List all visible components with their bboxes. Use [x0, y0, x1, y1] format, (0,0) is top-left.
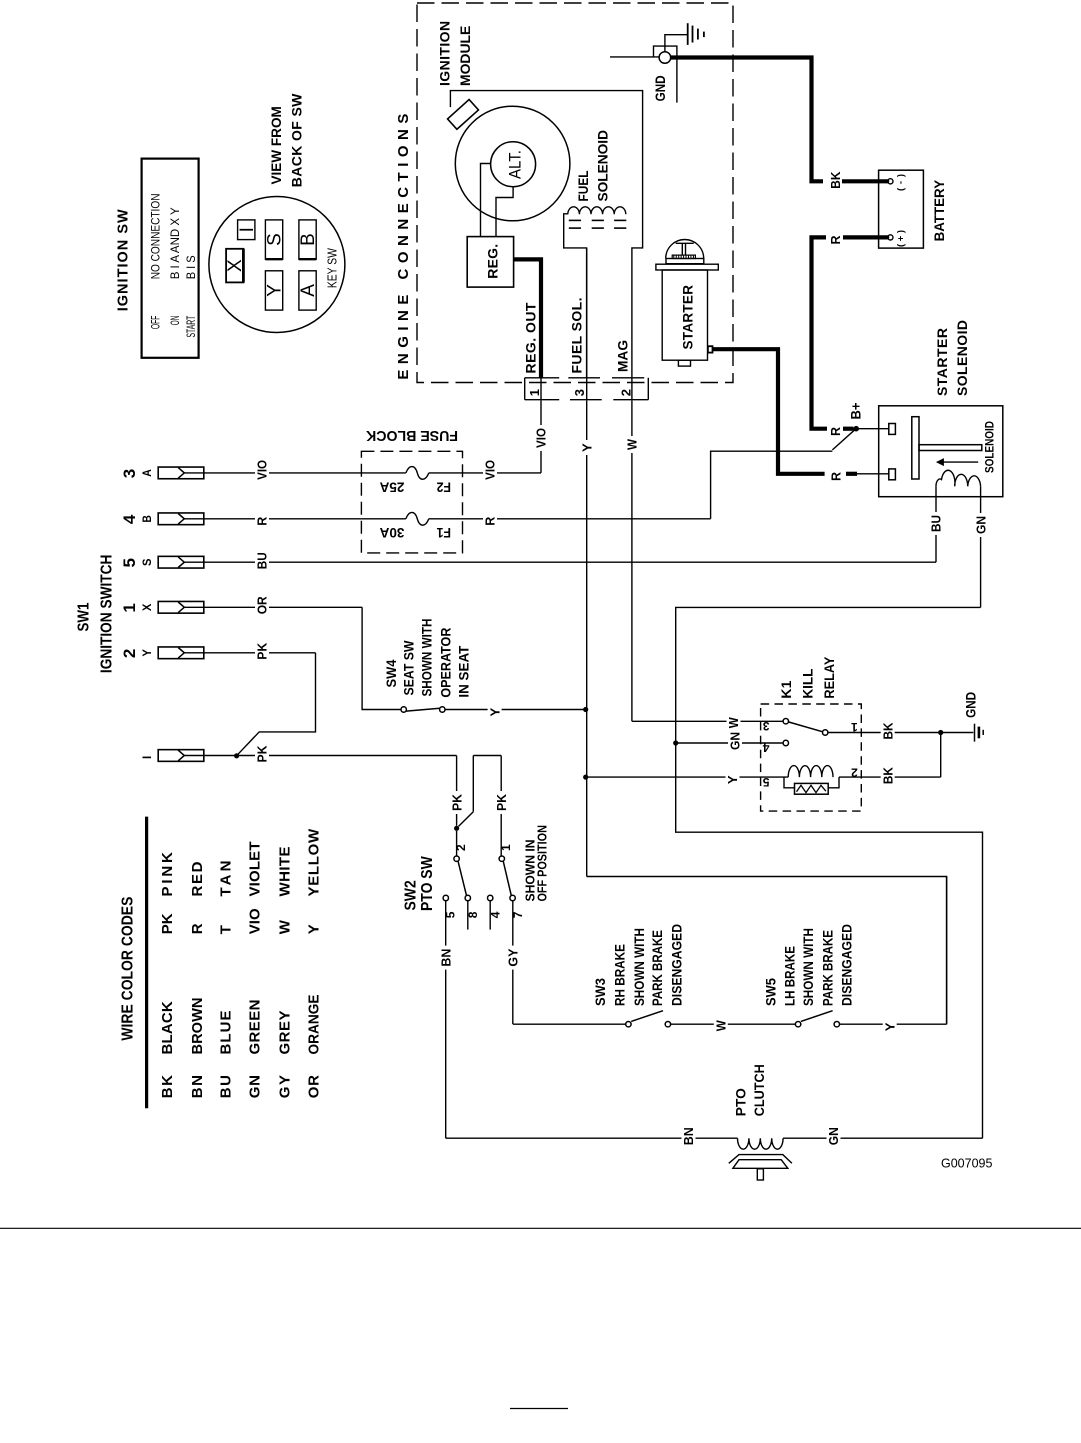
svg-text:STARTER: STARTER: [934, 328, 950, 396]
svg-text:A: A: [142, 469, 154, 477]
svg-text:(-): (-): [896, 174, 907, 191]
svg-text:IGNITION: IGNITION: [437, 21, 453, 86]
svg-text:GN: GN: [826, 1127, 841, 1145]
svg-text:PINK: PINK: [159, 852, 176, 897]
svg-text:SW3: SW3: [592, 978, 608, 1006]
svg-text:5: 5: [763, 775, 770, 789]
svg-text:W: W: [625, 438, 640, 450]
svg-text:PTO: PTO: [733, 1088, 749, 1116]
svg-text:K1: K1: [778, 680, 794, 698]
svg-text:B I A AND X Y: B I A AND X Y: [168, 207, 182, 279]
svg-text:3: 3: [120, 469, 139, 478]
svg-text:NO CONNECTION: NO CONNECTION: [149, 193, 163, 279]
svg-text:KEY SW: KEY SW: [325, 248, 340, 289]
svg-text:R: R: [483, 516, 498, 526]
svg-text:B+: B+: [849, 402, 864, 419]
svg-text:SOLENOID: SOLENOID: [954, 320, 970, 396]
svg-text:BK: BK: [880, 722, 895, 740]
svg-text:30A: 30A: [379, 525, 404, 540]
svg-text:GN: GN: [728, 732, 743, 750]
svg-text:START: START: [184, 315, 198, 337]
svg-text:BROWN: BROWN: [189, 998, 206, 1055]
svg-text:IGNITION SWITCH: IGNITION SWITCH: [99, 555, 116, 674]
svg-text:BN: BN: [438, 949, 453, 967]
svg-text:ALT.: ALT.: [506, 150, 524, 179]
svg-text:VIOLET: VIOLET: [247, 842, 264, 897]
svg-text:GY: GY: [506, 948, 521, 966]
svg-text:X: X: [142, 603, 154, 611]
svg-text:BU: BU: [929, 515, 944, 532]
svg-text:STARTER: STARTER: [681, 285, 696, 350]
svg-text:2: 2: [454, 844, 468, 851]
svg-text:S: S: [265, 233, 286, 246]
svg-text:T: T: [218, 925, 235, 934]
svg-text:SOLENOID: SOLENOID: [983, 421, 997, 473]
svg-text:CLUTCH: CLUTCH: [751, 1064, 767, 1116]
svg-text:ORANGE: ORANGE: [305, 995, 322, 1055]
svg-text:Y: Y: [725, 775, 740, 784]
svg-text:SW2: SW2: [403, 880, 420, 910]
svg-text:25A: 25A: [379, 479, 404, 494]
svg-text:PARK BRAKE: PARK BRAKE: [649, 930, 665, 1006]
svg-text:F1: F1: [436, 525, 451, 540]
svg-text:GND: GND: [963, 692, 978, 718]
svg-text:B: B: [298, 233, 319, 246]
svg-text:KILL: KILL: [800, 668, 816, 698]
svg-text:REG.: REG.: [484, 244, 500, 279]
svg-text:R: R: [828, 426, 843, 436]
svg-text:W: W: [726, 717, 741, 729]
svg-text:IN SEAT: IN SEAT: [456, 645, 472, 697]
svg-text:FUEL SOL.: FUEL SOL.: [569, 298, 585, 374]
svg-text:PK: PK: [449, 793, 464, 811]
svg-text:BN: BN: [681, 1127, 696, 1145]
svg-text:1: 1: [499, 844, 513, 851]
svg-text:VIEW FROM: VIEW FROM: [268, 106, 284, 184]
svg-text:BACK OF SW: BACK OF SW: [289, 93, 305, 187]
svg-text:PK: PK: [159, 913, 176, 934]
svg-text:ON: ON: [168, 316, 182, 326]
svg-text:SW5: SW5: [762, 978, 778, 1006]
svg-text:BK: BK: [159, 1075, 176, 1098]
svg-text:OR: OR: [305, 1075, 322, 1098]
svg-text:1: 1: [120, 603, 139, 612]
svg-text:SOLENOID: SOLENOID: [595, 130, 611, 202]
svg-text:ENGINE CONNECTIONS: ENGINE CONNECTIONS: [395, 114, 412, 380]
svg-text:LH BRAKE: LH BRAKE: [782, 946, 798, 1006]
svg-text:MODULE: MODULE: [457, 26, 473, 86]
svg-text:W: W: [276, 919, 293, 934]
svg-text:VIO: VIO: [483, 460, 498, 480]
svg-text:Y: Y: [142, 649, 154, 657]
svg-text:3: 3: [763, 719, 770, 733]
svg-text:B: B: [142, 515, 154, 523]
svg-text:I: I: [142, 756, 154, 759]
svg-text:BATTERY: BATTERY: [931, 179, 947, 241]
svg-text:FUSE BLOCK: FUSE BLOCK: [366, 427, 458, 444]
svg-text:SHOWN WITH: SHOWN WITH: [800, 928, 816, 1006]
svg-text:I: I: [237, 227, 258, 232]
svg-text:RH BRAKE: RH BRAKE: [612, 944, 628, 1006]
svg-text:SHOWN WITH: SHOWN WITH: [631, 928, 647, 1006]
svg-text:TAN: TAN: [218, 861, 235, 897]
svg-text:OR: OR: [255, 596, 270, 615]
svg-text:BU: BU: [218, 1075, 235, 1098]
svg-text:2: 2: [120, 649, 139, 658]
svg-text:BK: BK: [880, 767, 895, 785]
svg-text:(+): (+): [896, 230, 907, 247]
svg-text:SEAT SW: SEAT SW: [401, 640, 417, 696]
svg-text:4: 4: [488, 911, 502, 918]
svg-text:OFF POSITION: OFF POSITION: [535, 825, 550, 901]
svg-text:RELAY: RELAY: [821, 656, 837, 699]
svg-text:1: 1: [527, 389, 542, 396]
svg-text:Y: Y: [882, 1022, 897, 1031]
svg-text:5: 5: [120, 558, 139, 567]
svg-text:BLACK: BLACK: [159, 1001, 176, 1054]
svg-text:WHITE: WHITE: [276, 847, 293, 897]
svg-text:4: 4: [120, 514, 139, 524]
svg-text:R: R: [255, 516, 270, 526]
svg-text:FUEL: FUEL: [575, 170, 591, 201]
svg-text:OFF: OFF: [149, 316, 163, 329]
svg-text:VIO: VIO: [534, 428, 549, 448]
svg-text:WIRE COLOR CODES: WIRE COLOR CODES: [120, 897, 137, 1041]
svg-text:R: R: [828, 235, 843, 245]
svg-text:REG. OUT: REG. OUT: [523, 302, 539, 373]
svg-text:SW4: SW4: [383, 659, 399, 687]
svg-text:BK: BK: [828, 171, 843, 189]
svg-text:PTO SW: PTO SW: [419, 855, 436, 911]
svg-text:W: W: [714, 1020, 729, 1032]
svg-text:A: A: [298, 284, 319, 297]
svg-text:B I S: B I S: [184, 255, 198, 279]
svg-text:DISENGAGED: DISENGAGED: [668, 924, 684, 1006]
svg-text:OPERATOR: OPERATOR: [437, 628, 453, 698]
svg-text:PK: PK: [494, 793, 509, 811]
svg-text:R: R: [828, 471, 843, 481]
svg-text:YELLOW: YELLOW: [305, 828, 322, 897]
svg-text:BN: BN: [189, 1075, 206, 1098]
svg-text:BLUE: BLUE: [218, 1011, 235, 1055]
svg-text:GREEN: GREEN: [247, 1000, 264, 1055]
svg-text:S: S: [142, 558, 154, 566]
svg-text:PK: PK: [255, 745, 270, 763]
svg-text:PARK BRAKE: PARK BRAKE: [819, 930, 835, 1006]
svg-text:GN: GN: [973, 516, 988, 534]
svg-text:8: 8: [466, 911, 480, 918]
svg-text:F2: F2: [437, 479, 451, 494]
svg-text:GN: GN: [247, 1075, 264, 1098]
svg-text:PK: PK: [255, 642, 270, 660]
svg-text:SHOWN WITH: SHOWN WITH: [419, 619, 435, 697]
svg-text:RED: RED: [189, 861, 206, 896]
svg-text:DISENGAGED: DISENGAGED: [838, 924, 854, 1006]
svg-text:Y: Y: [579, 443, 594, 452]
svg-text:Y: Y: [265, 284, 286, 297]
svg-text:SW1: SW1: [75, 602, 92, 631]
svg-text:GREY: GREY: [276, 1011, 293, 1055]
svg-text:4: 4: [763, 741, 770, 755]
svg-text:R: R: [189, 923, 206, 934]
svg-text:GND: GND: [653, 75, 668, 101]
svg-text:Y: Y: [487, 708, 502, 717]
svg-text:GY: GY: [276, 1075, 293, 1098]
svg-text:G007095: G007095: [941, 1157, 992, 1171]
svg-text:MAG: MAG: [615, 340, 631, 372]
svg-text:IGNITION SW: IGNITION SW: [116, 209, 132, 311]
svg-text:3: 3: [572, 389, 587, 396]
svg-text:Y: Y: [305, 924, 322, 934]
svg-text:BU: BU: [255, 552, 270, 569]
svg-text:VIO: VIO: [247, 908, 264, 934]
svg-text:VIO: VIO: [255, 460, 270, 480]
